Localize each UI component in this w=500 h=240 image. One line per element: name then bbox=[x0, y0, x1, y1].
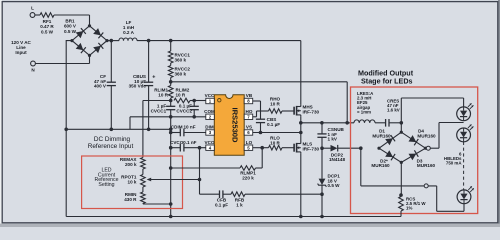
svg-text:350 Vdc: 350 Vdc bbox=[129, 84, 147, 89]
svg-text:0.1 µF: 0.1 µF bbox=[267, 122, 280, 127]
terminal lamp- bbox=[424, 184, 428, 188]
wire bbox=[282, 110, 294, 112]
resistor RMIN bbox=[124, 192, 145, 204]
capacitor CVCO bbox=[169, 140, 206, 152]
pin 8 VB bbox=[244, 93, 253, 104]
wire LED feed bbox=[401, 98, 463, 123]
wire VCC left bbox=[143, 101, 171, 158]
svg-text:220 k: 220 k bbox=[242, 176, 254, 181]
svg-text:+: + bbox=[152, 75, 155, 81]
svg-text:COM: COM bbox=[204, 109, 215, 114]
svg-text:10 k: 10 k bbox=[128, 180, 137, 185]
capacitor CFB bbox=[215, 190, 231, 207]
svg-text:Input: Input bbox=[15, 50, 27, 55]
wire bbox=[35, 14, 40, 16]
pin 2 COM bbox=[204, 109, 215, 120]
wire LO bbox=[253, 147, 269, 149]
svg-text:VCC: VCC bbox=[205, 93, 215, 98]
wire VCO feedback bbox=[200, 148, 220, 195]
capacitor CBS bbox=[256, 117, 280, 134]
svg-text:0.5 W: 0.5 W bbox=[41, 29, 54, 34]
capacitor CBUS bbox=[129, 39, 156, 130]
wire VS pin bbox=[253, 132, 301, 134]
wire bbox=[143, 202, 173, 206]
svg-text:IRF-730: IRF-730 bbox=[303, 109, 320, 114]
inductor LF bbox=[119, 20, 137, 41]
label D4 bbox=[417, 129, 436, 139]
svg-text:1%: 1% bbox=[406, 206, 412, 211]
svg-text:HO: HO bbox=[246, 109, 253, 114]
dashed LED continuation bbox=[463, 142, 465, 190]
resistor RVCC1 bbox=[168, 51, 190, 63]
wire COM spine bbox=[169, 117, 173, 219]
transistor MHS bbox=[294, 105, 319, 117]
resistor RLMP1 bbox=[169, 166, 262, 181]
wire ground tie bbox=[64, 128, 170, 132]
pin 3 DIM bbox=[205, 125, 214, 136]
svg-text:400 V: 400 V bbox=[94, 84, 107, 89]
op-amp U1 IRS2530D bbox=[214, 95, 244, 156]
svg-text:0.2 A: 0.2 A bbox=[123, 30, 134, 35]
wire midpoint rail bbox=[301, 121, 354, 125]
svg-text:360 k: 360 k bbox=[175, 58, 187, 63]
terminal lamp+ bbox=[426, 123, 464, 151]
wire bbox=[260, 146, 264, 168]
pot wiper arrow bbox=[147, 178, 202, 182]
resistor RFB bbox=[231, 192, 245, 208]
svg-text:0.1 µF: 0.1 µF bbox=[215, 203, 228, 208]
bridge BR1 bbox=[64, 19, 109, 58]
svg-text:10 R: 10 R bbox=[270, 140, 280, 145]
svg-text:DIM: DIM bbox=[205, 125, 214, 130]
inductor LRES bbox=[354, 91, 375, 123]
wire bridge bottom bbox=[399, 162, 403, 197]
capacitor CSNUB bbox=[317, 123, 344, 148]
wire bbox=[35, 55, 89, 63]
svg-text:MUR160: MUR160 bbox=[372, 133, 391, 138]
svg-text:1.6 kV: 1.6 kV bbox=[387, 108, 400, 113]
wire COM rail bbox=[130, 115, 206, 129]
resistor RF1 bbox=[40, 13, 54, 35]
terminal L bbox=[30, 6, 35, 18]
pin 1 VCC bbox=[205, 93, 215, 104]
wire bottom rail bbox=[66, 216, 401, 218]
diode DCP2 bbox=[320, 145, 361, 162]
capacitor CDIM bbox=[169, 125, 206, 137]
pin 7 HO bbox=[244, 109, 253, 120]
svg-text:360 k: 360 k bbox=[175, 72, 187, 77]
svg-text:10 R: 10 R bbox=[270, 101, 280, 106]
svg-text:CVCC2: CVCC2 bbox=[176, 109, 192, 114]
svg-text:VB: VB bbox=[246, 93, 253, 98]
wire HO bbox=[253, 111, 269, 117]
svg-text:10 nF: 10 nF bbox=[184, 125, 196, 130]
wire bbox=[54, 15, 90, 26]
wire source MLS bbox=[299, 154, 303, 219]
svg-text:0.5 W: 0.5 W bbox=[64, 29, 77, 34]
svg-text:430 R: 430 R bbox=[124, 197, 137, 202]
terminal N bbox=[31, 61, 36, 72]
svg-text:200 k: 200 k bbox=[125, 162, 137, 167]
LED string bbox=[457, 103, 474, 142]
svg-text:VCO: VCO bbox=[205, 140, 215, 145]
wire bbox=[169, 98, 173, 102]
svg-text:Reference Input: Reference Input bbox=[88, 143, 134, 150]
wire drain MHS bbox=[300, 41, 302, 105]
svg-text:IRF-730: IRF-730 bbox=[303, 146, 320, 151]
label Modified Output bbox=[358, 69, 414, 86]
svg-text:L: L bbox=[31, 6, 34, 11]
wire bbox=[170, 63, 172, 66]
svg-text:MUR160: MUR160 bbox=[417, 133, 436, 138]
wire bus bbox=[137, 40, 301, 42]
svg-text:IRS2530D: IRS2530D bbox=[230, 107, 239, 143]
pin 4 VCO bbox=[205, 140, 215, 151]
wire VS node bbox=[299, 117, 303, 142]
wire bbox=[169, 39, 173, 51]
wire bbox=[142, 169, 144, 175]
svg-text:10 R: 10 R bbox=[158, 93, 168, 98]
wire ground from bridge bbox=[66, 41, 72, 217]
label D2 bbox=[371, 158, 390, 168]
wire VB bbox=[253, 101, 261, 119]
LED bottom bbox=[457, 186, 474, 203]
wire bbox=[375, 122, 386, 124]
svg-text:CVCC1: CVCC1 bbox=[151, 109, 167, 114]
wire VCC bbox=[190, 99, 206, 103]
label D3 bbox=[417, 158, 436, 168]
red box LED current reference bbox=[82, 156, 183, 209]
label DC Dimming bbox=[88, 136, 134, 150]
pin 5 LO bbox=[244, 140, 253, 151]
label 120VAC bbox=[11, 40, 31, 55]
resistor RLIM1 bbox=[154, 86, 173, 99]
wire bbox=[282, 147, 294, 149]
wire DCP2 to bridge bbox=[359, 146, 363, 186]
svg-text:LO: LO bbox=[246, 140, 253, 145]
resistor REMAX bbox=[120, 157, 145, 169]
svg-text:1 k: 1 k bbox=[236, 203, 243, 208]
svg-text:750 mA: 750 mA bbox=[446, 161, 462, 166]
transistor MLS bbox=[294, 142, 319, 154]
svg-text:Stage for LEDs: Stage for LEDs bbox=[361, 77, 413, 86]
node CRES out bbox=[400, 121, 404, 125]
svg-text:0.5 W: 0.5 W bbox=[328, 183, 341, 188]
wire rail to VS bbox=[171, 82, 348, 123]
wire bbox=[245, 192, 324, 196]
wire bbox=[142, 187, 144, 192]
wire bus bbox=[107, 40, 119, 42]
capacitor CVCC2 bbox=[176, 101, 198, 119]
zener DCP1 bbox=[318, 148, 341, 218]
svg-text:1N4148: 1N4148 bbox=[329, 157, 346, 162]
svg-text:10 R: 10 R bbox=[176, 93, 186, 98]
label LED current ref bbox=[95, 167, 119, 188]
pin 6 VS bbox=[244, 125, 253, 136]
wire LED return bbox=[361, 186, 464, 211]
svg-text:MUR160: MUR160 bbox=[371, 163, 390, 168]
resistor RCS bbox=[399, 197, 427, 217]
capacitor CF bbox=[94, 39, 116, 130]
svg-text:VS: VS bbox=[246, 125, 252, 130]
capacitor CRES bbox=[386, 99, 402, 127]
label D1 bbox=[372, 129, 391, 139]
svg-text:Setting: Setting bbox=[98, 182, 114, 188]
capacitor CVCC1 bbox=[151, 101, 176, 117]
svg-text:DC Dimming: DC Dimming bbox=[94, 136, 131, 143]
svg-text:CVCO: CVCO bbox=[170, 140, 184, 145]
wire to bridge top bbox=[400, 123, 402, 132]
svg-text:0.1 nF: 0.1 nF bbox=[183, 140, 196, 145]
resistor RLO bbox=[269, 136, 283, 150]
label HBLEDs bbox=[444, 152, 462, 166]
resistor RHO bbox=[269, 97, 283, 114]
svg-text:1 kV: 1 kV bbox=[328, 137, 338, 142]
svg-text:= 1mm: = 1mm bbox=[357, 109, 371, 114]
resistor RVCC2 bbox=[168, 66, 190, 78]
wire node VS-charge bbox=[169, 78, 173, 86]
resistor RPOT1 bbox=[121, 175, 145, 188]
svg-text:MUR160: MUR160 bbox=[417, 163, 436, 168]
svg-text:CDIM: CDIM bbox=[171, 125, 183, 130]
resistor RLIM2 bbox=[174, 88, 190, 103]
bridge D1-D4 bbox=[377, 131, 427, 164]
red box output stage bbox=[351, 87, 478, 214]
